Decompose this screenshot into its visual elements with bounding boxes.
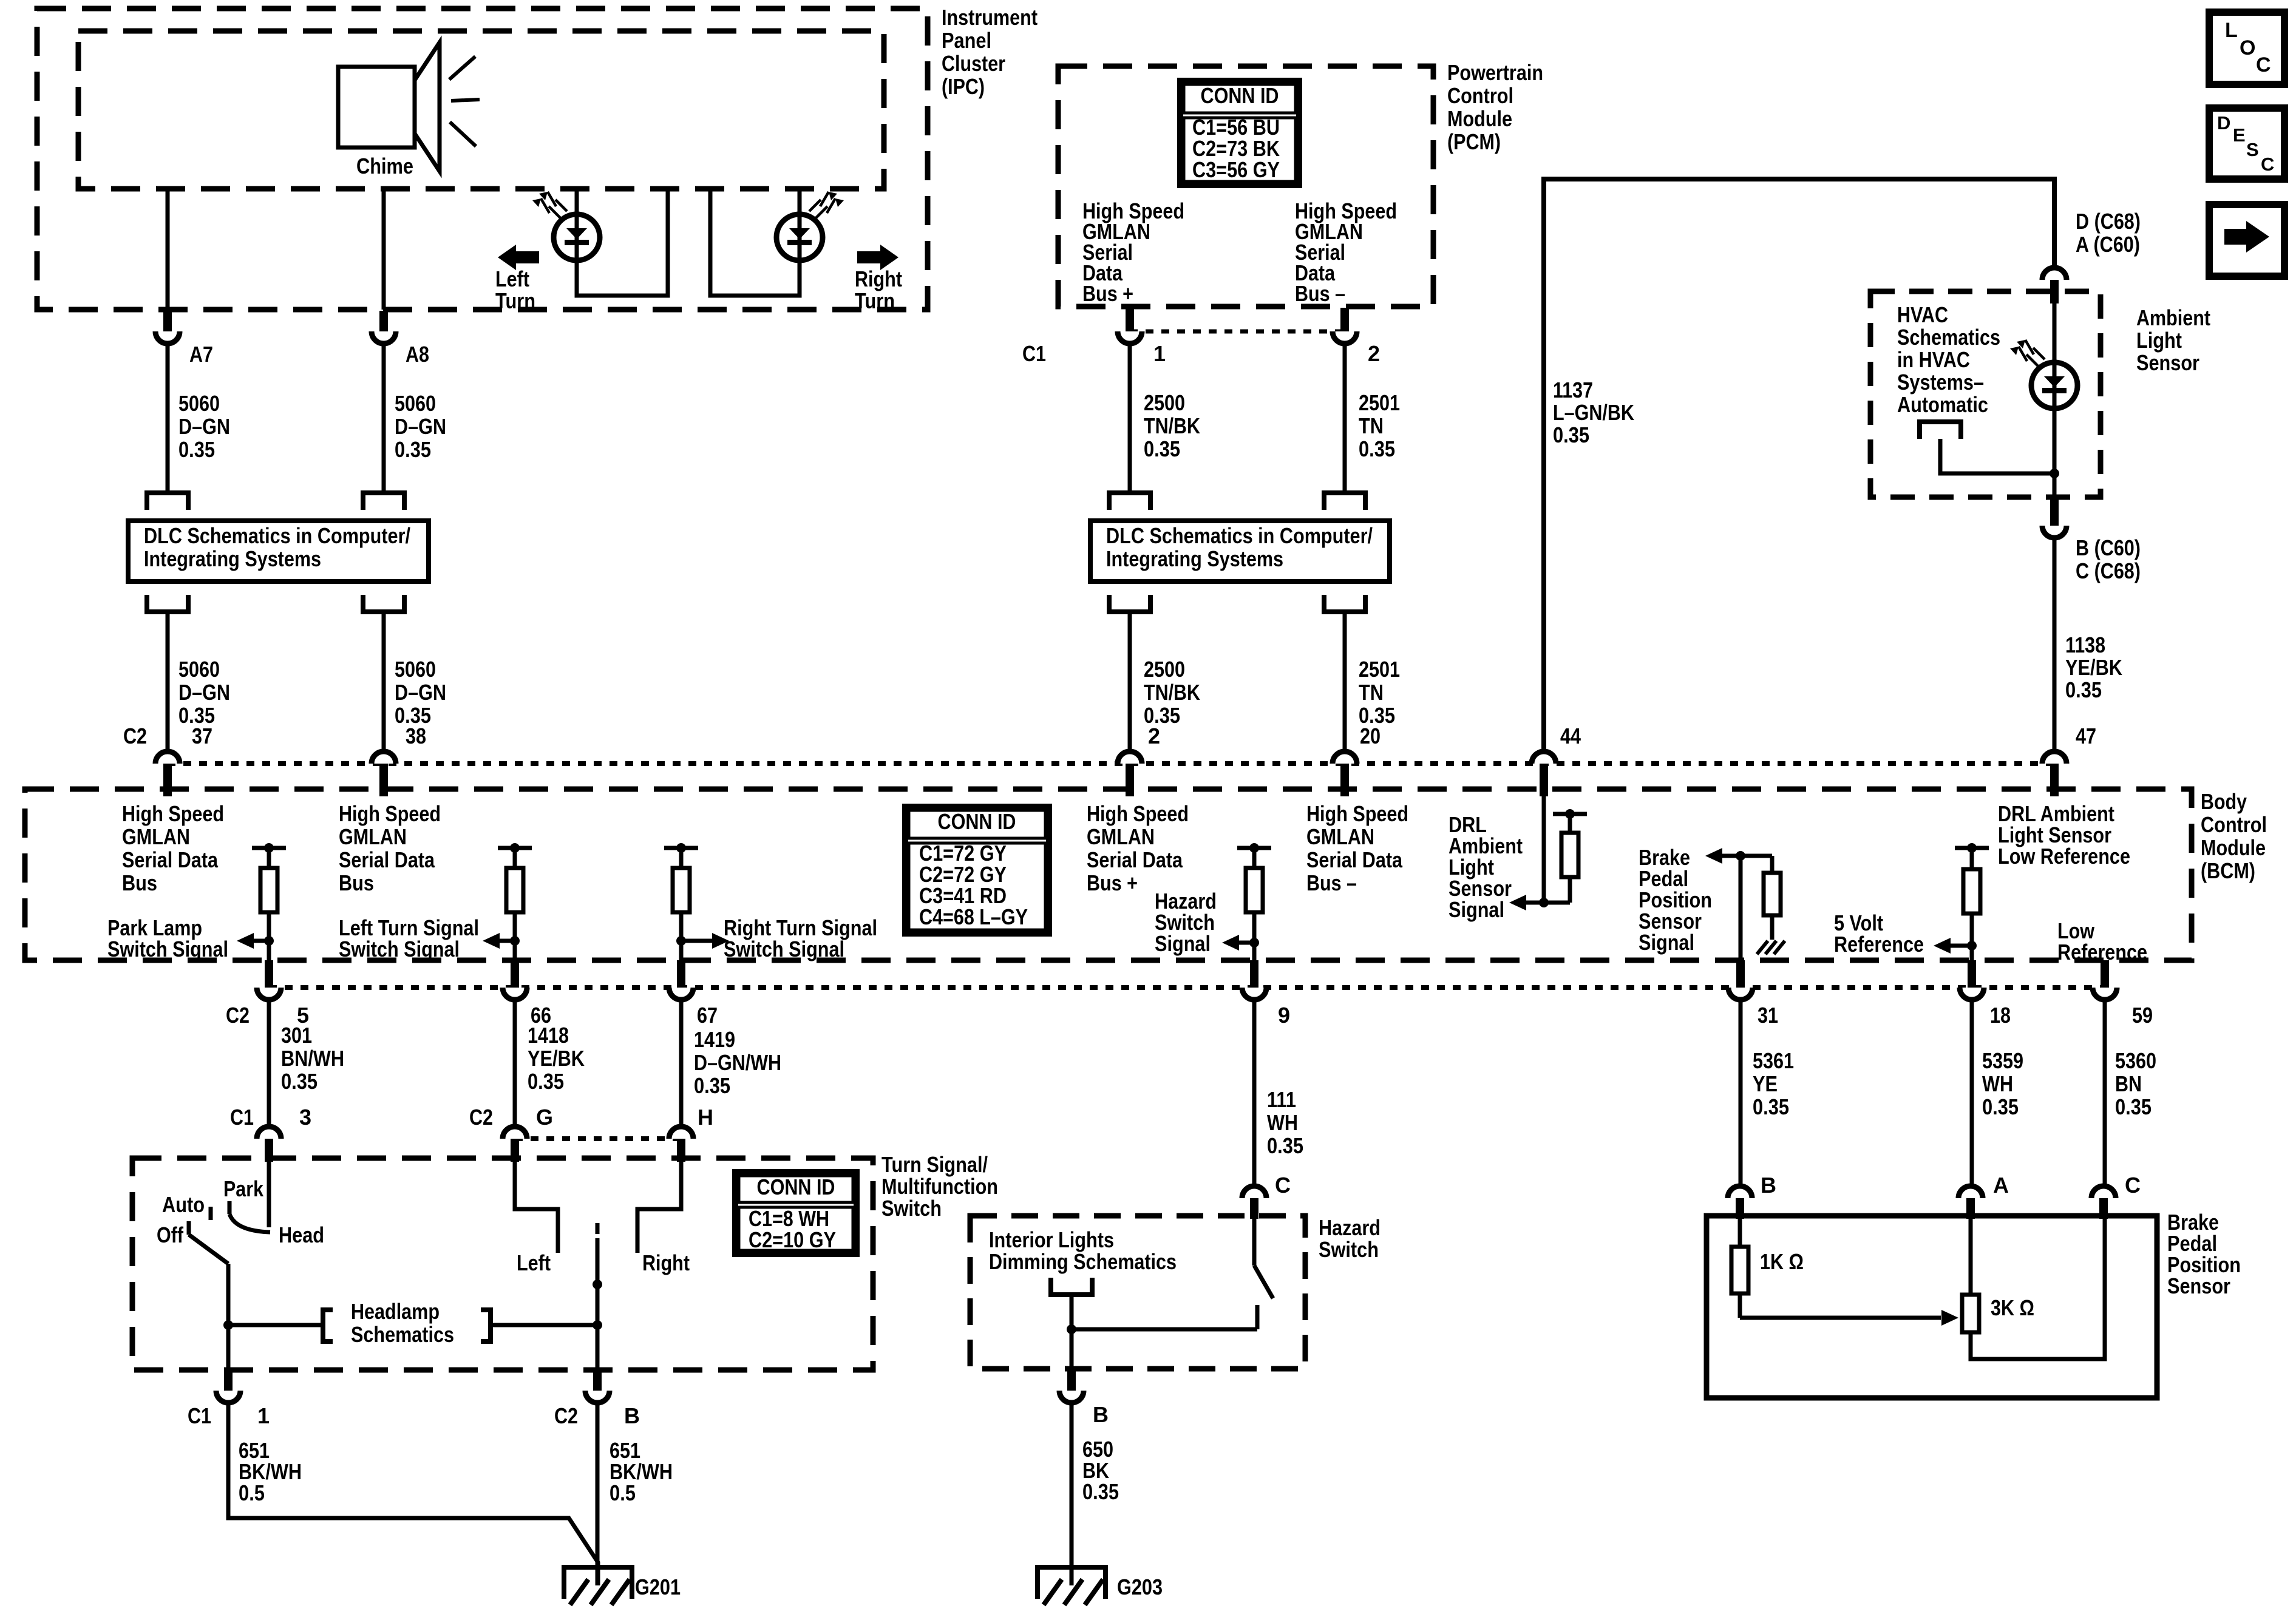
svg-text:Body: Body	[2201, 789, 2247, 814]
svg-text:WH: WH	[1267, 1110, 1298, 1135]
svg-text:YE: YE	[1753, 1071, 1778, 1096]
svg-text:A: A	[1993, 1173, 2009, 1198]
svg-text:TN/BK: TN/BK	[1144, 413, 1200, 438]
svg-text:31: 31	[1758, 1003, 1778, 1028]
svg-text:0.5: 0.5	[239, 1480, 265, 1505]
svg-text:5060: 5060	[395, 657, 436, 682]
svg-text:1: 1	[1153, 341, 1166, 366]
svg-text:A (C60): A (C60)	[2076, 232, 2140, 257]
svg-text:D–GN: D–GN	[178, 680, 230, 705]
svg-text:0.35: 0.35	[2115, 1094, 2152, 1119]
svg-text:0.35: 0.35	[281, 1069, 318, 1094]
svg-text:C4=68 L–GY: C4=68 L–GY	[919, 904, 1028, 929]
svg-text:C1: C1	[188, 1403, 211, 1428]
svg-text:TN: TN	[1359, 413, 1384, 438]
svg-text:Left: Left	[517, 1250, 551, 1275]
svg-text:GMLAN: GMLAN	[339, 824, 407, 849]
svg-text:TN: TN	[1359, 680, 1384, 705]
svg-text:5360: 5360	[2115, 1048, 2156, 1073]
svg-text:0.35: 0.35	[1753, 1094, 1789, 1119]
svg-text:B (C60): B (C60)	[2076, 535, 2141, 560]
svg-text:37: 37	[192, 724, 212, 748]
svg-text:H: H	[698, 1105, 713, 1130]
svg-text:18: 18	[1990, 1003, 2011, 1028]
svg-text:0.35: 0.35	[1982, 1094, 2019, 1119]
svg-text:301: 301	[281, 1023, 312, 1048]
svg-text:0.35: 0.35	[1359, 436, 1395, 461]
svg-text:C2: C2	[469, 1105, 493, 1130]
svg-text:TN/BK: TN/BK	[1144, 680, 1200, 705]
svg-text:C: C	[2261, 154, 2274, 175]
svg-text:C (C68): C (C68)	[2076, 558, 2141, 583]
svg-text:Schematics: Schematics	[1897, 325, 2000, 350]
svg-text:5060: 5060	[178, 391, 220, 416]
svg-text:Sensor: Sensor	[2167, 1273, 2230, 1298]
svg-text:20: 20	[1360, 724, 1381, 748]
svg-text:Chime: Chime	[356, 154, 413, 178]
svg-text:5361: 5361	[1753, 1048, 1794, 1073]
svg-text:L–GN/BK: L–GN/BK	[1553, 400, 1634, 425]
svg-text:B: B	[1093, 1402, 1109, 1427]
svg-text:C2=10 GY: C2=10 GY	[749, 1227, 836, 1252]
svg-text:Left: Left	[495, 266, 529, 291]
svg-text:E: E	[2233, 124, 2246, 146]
svg-text:Switch: Switch	[881, 1196, 942, 1221]
svg-text:0.35: 0.35	[1267, 1133, 1303, 1158]
svg-text:Instrument: Instrument	[942, 5, 1038, 30]
svg-text:G201: G201	[635, 1575, 681, 1599]
svg-text:(PCM): (PCM)	[1447, 129, 1501, 154]
svg-text:38: 38	[406, 724, 426, 748]
svg-text:C3=56 GY: C3=56 GY	[1192, 157, 1280, 182]
svg-text:1: 1	[257, 1403, 270, 1428]
svg-text:Turn: Turn	[855, 288, 895, 313]
svg-text:GMLAN: GMLAN	[1306, 824, 1374, 849]
svg-text:(IPC): (IPC)	[942, 74, 985, 99]
svg-text:Bus +: Bus +	[1087, 870, 1138, 895]
svg-text:0.35: 0.35	[1553, 422, 1589, 447]
svg-text:Off: Off	[157, 1222, 184, 1247]
svg-text:G: G	[536, 1105, 553, 1130]
svg-text:Integrating Systems: Integrating Systems	[144, 546, 321, 571]
svg-text:0.35: 0.35	[178, 437, 215, 462]
svg-text:G203: G203	[1117, 1575, 1163, 1599]
svg-text:3K Ω: 3K Ω	[1991, 1295, 2034, 1320]
svg-text:O: O	[2240, 36, 2255, 59]
svg-text:BN/WH: BN/WH	[281, 1046, 344, 1071]
svg-text:in HVAC: in HVAC	[1897, 347, 1970, 372]
svg-text:C: C	[2125, 1173, 2141, 1198]
svg-text:Right: Right	[642, 1250, 690, 1275]
svg-text:C: C	[1275, 1173, 1291, 1198]
svg-text:YE/BK: YE/BK	[528, 1046, 585, 1071]
svg-text:67: 67	[697, 1003, 718, 1028]
svg-text:Signal: Signal	[1449, 897, 1504, 922]
svg-text:0.35: 0.35	[528, 1069, 564, 1094]
svg-text:CONN ID: CONN ID	[1201, 83, 1279, 108]
svg-text:Head: Head	[279, 1222, 324, 1247]
svg-text:D–GN: D–GN	[178, 414, 230, 439]
svg-text:Bus: Bus	[339, 870, 374, 895]
svg-text:High Speed: High Speed	[122, 801, 224, 826]
svg-text:Headlamp: Headlamp	[351, 1299, 440, 1324]
svg-text:5060: 5060	[178, 657, 220, 682]
svg-text:Control: Control	[2201, 812, 2267, 837]
svg-text:WH: WH	[1982, 1071, 2013, 1096]
svg-text:B: B	[1761, 1173, 1776, 1198]
svg-text:Light: Light	[2136, 328, 2182, 353]
svg-text:Module: Module	[1447, 106, 1512, 131]
svg-text:Module: Module	[2201, 835, 2266, 860]
svg-text:Sensor: Sensor	[2136, 350, 2199, 375]
svg-text:GMLAN: GMLAN	[122, 824, 190, 849]
svg-text:Powertrain: Powertrain	[1447, 60, 1543, 85]
svg-text:0.35: 0.35	[1144, 436, 1180, 461]
svg-text:Serial Data: Serial Data	[122, 847, 219, 872]
svg-text:59: 59	[2132, 1003, 2153, 1028]
svg-text:1418: 1418	[528, 1023, 569, 1048]
svg-text:HVAC: HVAC	[1897, 302, 1948, 327]
svg-text:D–GN/WH: D–GN/WH	[694, 1050, 781, 1075]
svg-text:9: 9	[1278, 1003, 1290, 1028]
svg-text:High Speed: High Speed	[339, 801, 441, 826]
svg-text:Multifunction: Multifunction	[881, 1174, 998, 1199]
svg-text:Integrating Systems: Integrating Systems	[1106, 546, 1283, 571]
svg-text:C1: C1	[1022, 341, 1046, 366]
svg-text:1K Ω: 1K Ω	[1760, 1249, 1804, 1274]
svg-text:GMLAN: GMLAN	[1087, 824, 1155, 849]
svg-text:47: 47	[2076, 724, 2096, 748]
svg-text:D (C68): D (C68)	[2076, 209, 2141, 234]
svg-text:Turn Signal/: Turn Signal/	[881, 1152, 988, 1177]
svg-text:Cluster: Cluster	[942, 51, 1005, 76]
svg-text:CONN ID: CONN ID	[757, 1175, 835, 1199]
svg-text:111: 111	[1267, 1087, 1296, 1112]
svg-text:DLC Schematics in Computer/: DLC Schematics in Computer/	[144, 523, 410, 548]
svg-text:0.35: 0.35	[1082, 1479, 1119, 1504]
svg-text:2: 2	[1368, 341, 1380, 366]
svg-text:Panel: Panel	[942, 28, 991, 53]
svg-text:0.5: 0.5	[610, 1480, 636, 1505]
svg-text:Ambient: Ambient	[2136, 305, 2210, 330]
svg-text:D–GN: D–GN	[395, 414, 446, 439]
svg-text:CONN ID: CONN ID	[938, 809, 1016, 834]
svg-text:Signal: Signal	[1639, 930, 1694, 955]
svg-text:C2: C2	[226, 1003, 250, 1028]
svg-text:B: B	[624, 1403, 640, 1428]
svg-text:5060: 5060	[395, 391, 436, 416]
svg-text:1137: 1137	[1553, 378, 1593, 402]
svg-text:C1: C1	[230, 1105, 254, 1130]
svg-text:Interior Lights: Interior Lights	[989, 1227, 1114, 1252]
svg-text:1419: 1419	[694, 1027, 735, 1052]
svg-text:0.35: 0.35	[395, 437, 431, 462]
svg-text:Reference: Reference	[1834, 932, 1924, 957]
svg-text:Control: Control	[1447, 83, 1513, 108]
svg-text:Switch: Switch	[1319, 1237, 1379, 1262]
svg-text:Low Reference: Low Reference	[1998, 844, 2130, 869]
svg-text:Hazard: Hazard	[1319, 1215, 1381, 1240]
svg-text:C2: C2	[554, 1403, 578, 1428]
svg-text:2500: 2500	[1144, 657, 1185, 682]
svg-text:1138: 1138	[2065, 632, 2105, 657]
svg-text:Serial Data: Serial Data	[1087, 847, 1183, 872]
svg-text:Bus –: Bus –	[1295, 281, 1345, 306]
svg-text:2500: 2500	[1144, 390, 1185, 415]
svg-text:Switch Signal: Switch Signal	[724, 937, 844, 961]
svg-text:A7: A7	[189, 342, 213, 367]
svg-text:5359: 5359	[1982, 1048, 2023, 1073]
svg-text:D–GN: D–GN	[395, 680, 446, 705]
svg-text:Turn: Turn	[495, 288, 535, 313]
svg-text:0.35: 0.35	[694, 1073, 730, 1098]
svg-text:2501: 2501	[1359, 657, 1400, 682]
svg-text:Serial Data: Serial Data	[339, 847, 435, 872]
svg-text:Schematics: Schematics	[351, 1322, 454, 1347]
svg-text:Automatic: Automatic	[1897, 392, 1988, 417]
svg-text:44: 44	[1560, 724, 1581, 748]
svg-text:Systems–: Systems–	[1897, 370, 1984, 395]
svg-text:2: 2	[1148, 724, 1160, 748]
svg-text:Auto: Auto	[162, 1192, 205, 1217]
svg-text:0.35: 0.35	[2065, 677, 2102, 702]
svg-text:Bus +: Bus +	[1082, 281, 1133, 306]
svg-text:Dimming Schematics: Dimming Schematics	[989, 1249, 1177, 1274]
svg-text:Signal: Signal	[1155, 931, 1211, 956]
svg-text:A8: A8	[406, 342, 429, 367]
svg-text:C2: C2	[123, 724, 147, 748]
svg-text:DLC Schematics in Computer/: DLC Schematics in Computer/	[1106, 523, 1373, 548]
svg-text:D: D	[2217, 112, 2230, 134]
svg-text:(BCM): (BCM)	[2201, 858, 2255, 883]
svg-text:High Speed: High Speed	[1087, 801, 1189, 826]
svg-text:Serial Data: Serial Data	[1306, 847, 1403, 872]
svg-text:Right: Right	[855, 266, 902, 291]
svg-text:L: L	[2225, 19, 2238, 42]
svg-text:Switch Signal: Switch Signal	[339, 937, 460, 961]
svg-text:Switch Signal: Switch Signal	[107, 937, 228, 961]
svg-text:C: C	[2256, 53, 2271, 76]
svg-text:3: 3	[299, 1105, 311, 1130]
svg-text:BN: BN	[2115, 1071, 2142, 1096]
svg-text:YE/BK: YE/BK	[2065, 655, 2122, 680]
svg-text:2501: 2501	[1359, 390, 1400, 415]
svg-text:High Speed: High Speed	[1306, 801, 1408, 826]
svg-text:Bus: Bus	[122, 870, 157, 895]
svg-text:Bus –: Bus –	[1306, 870, 1357, 895]
svg-text:Park: Park	[223, 1176, 264, 1201]
svg-text:S: S	[2246, 139, 2259, 160]
